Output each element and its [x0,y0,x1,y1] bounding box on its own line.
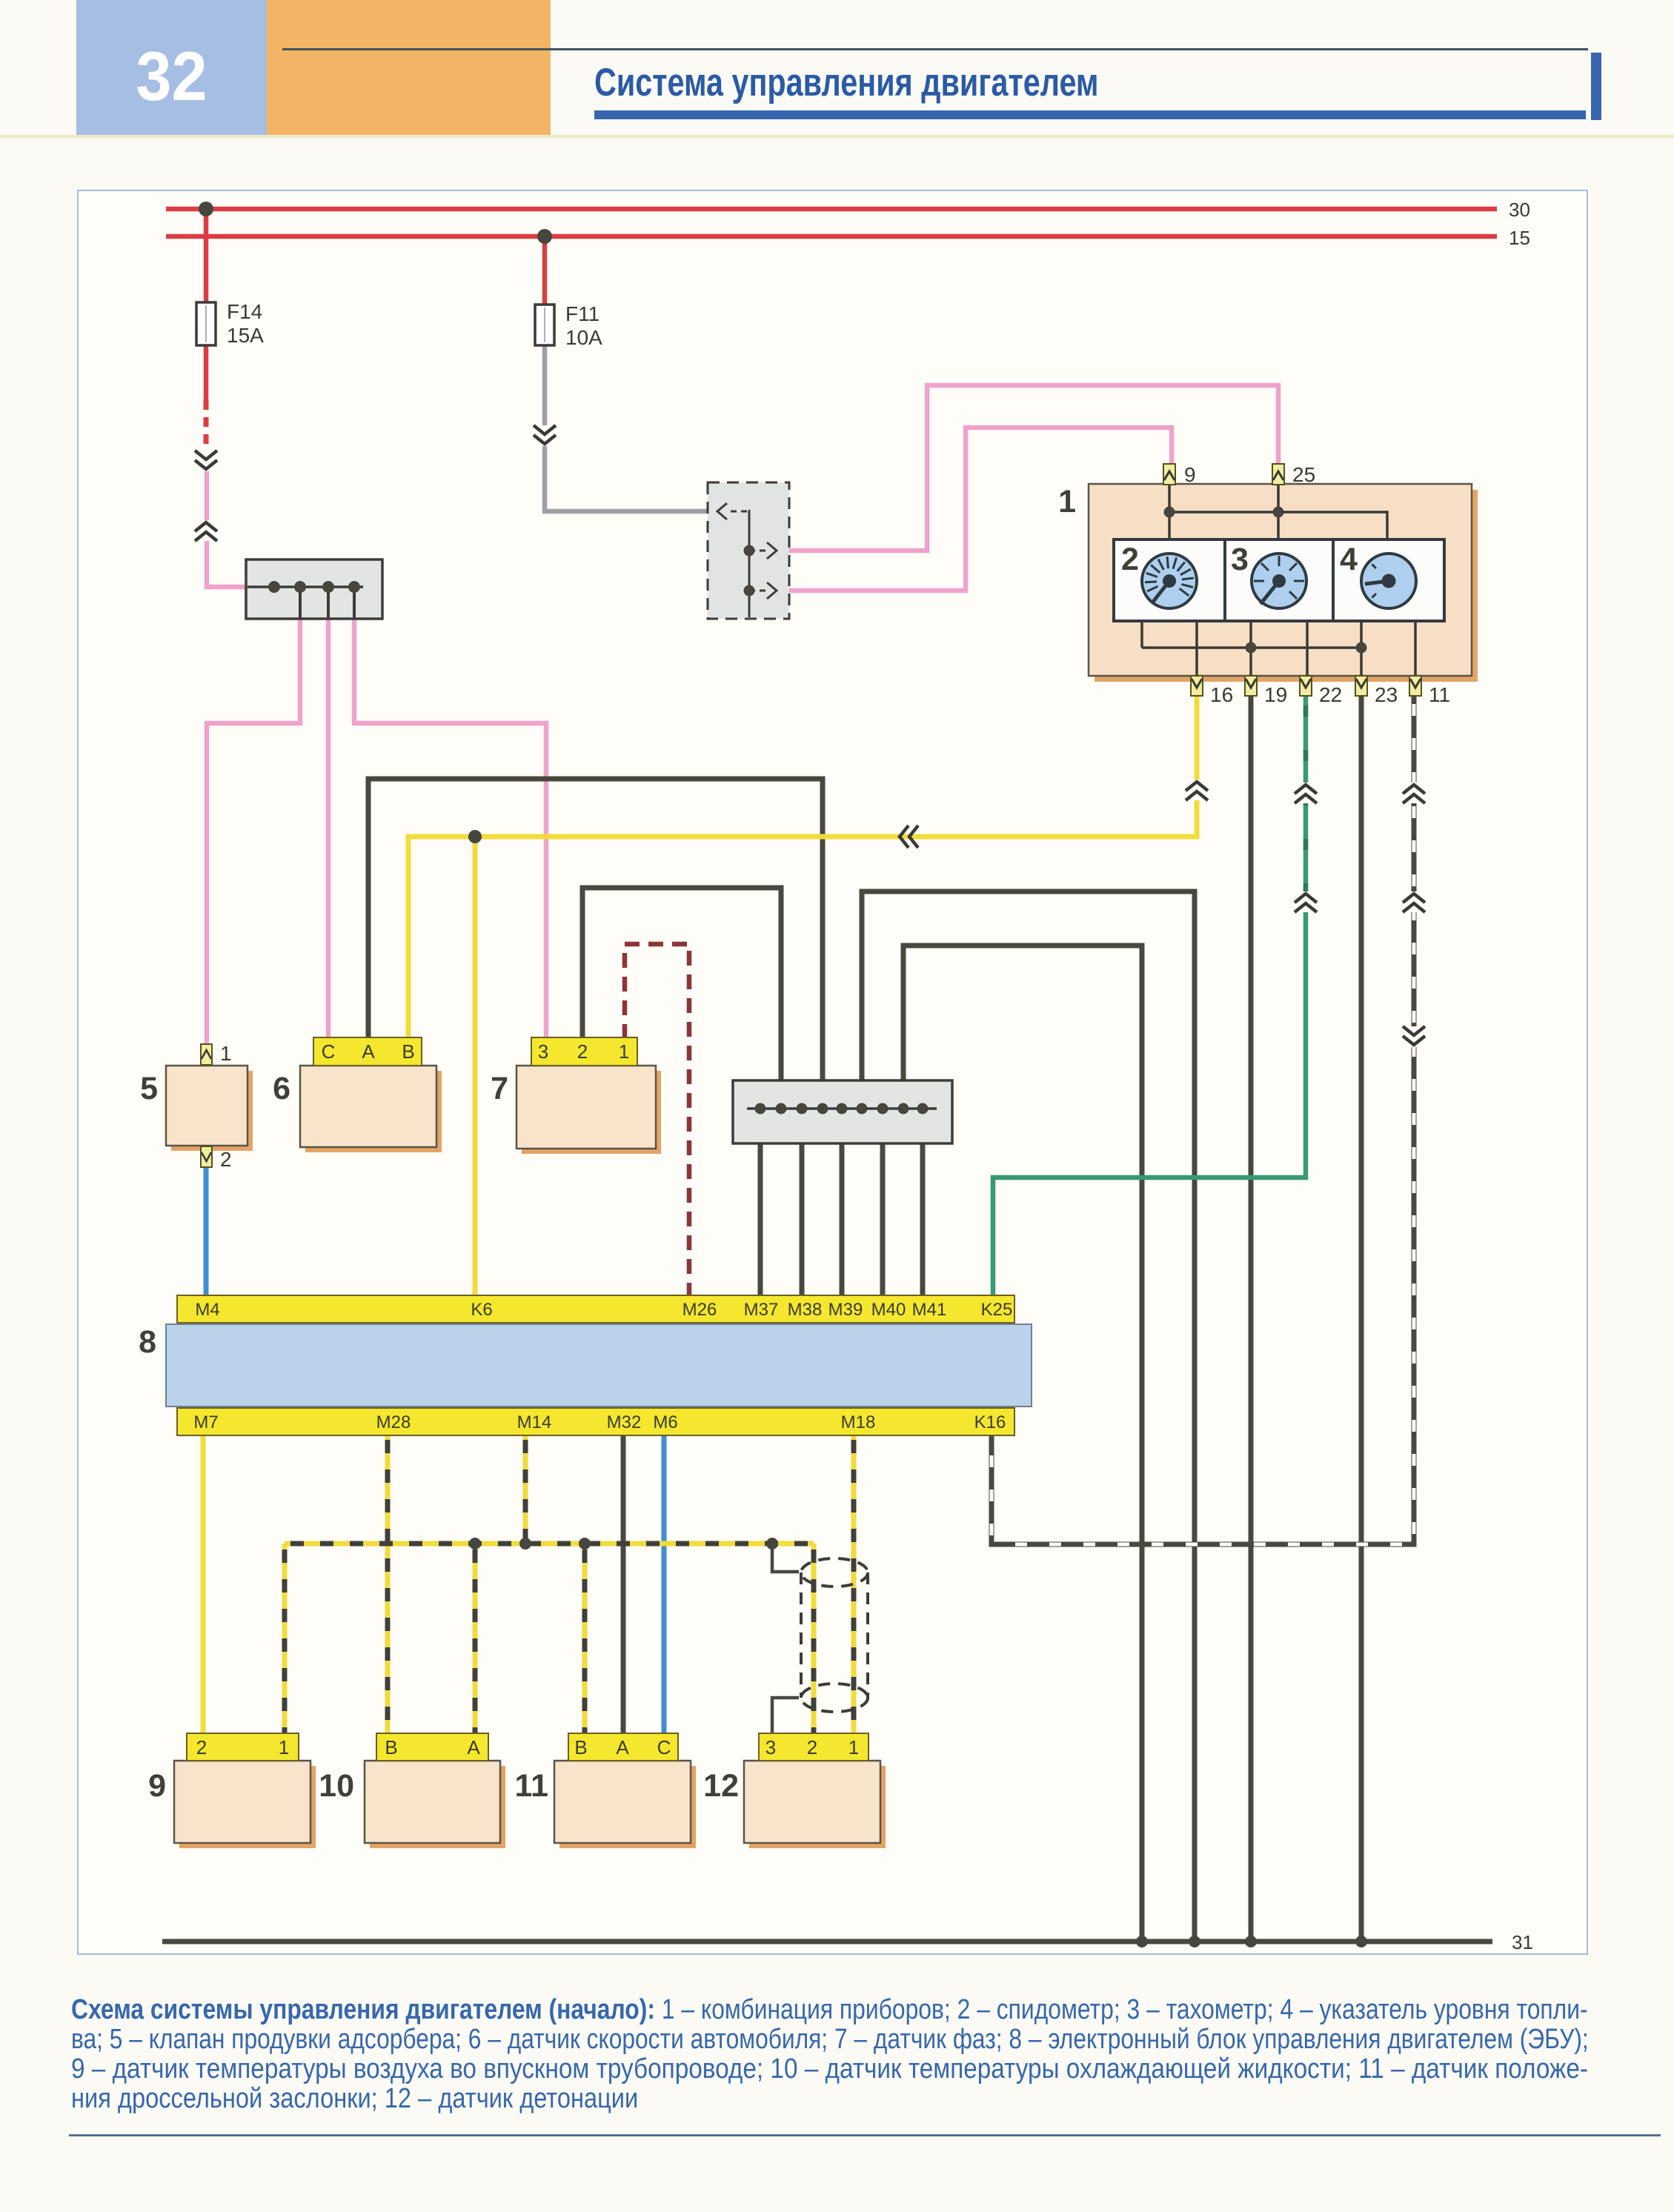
svg-text:10A: 10A [565,326,602,349]
svg-text:K6: K6 [471,1300,492,1320]
svg-text:F11: F11 [565,302,599,325]
svg-text:M7: M7 [193,1412,218,1432]
svg-text:M38: M38 [788,1300,823,1320]
svg-text:1: 1 [220,1042,232,1065]
svg-text:A: A [467,1736,480,1758]
svg-text:1: 1 [848,1736,859,1758]
svg-text:9: 9 [1184,463,1196,486]
svg-text:7: 7 [491,1071,508,1106]
svg-text:30: 30 [1509,199,1530,221]
svg-text:B: B [574,1736,587,1758]
svg-text:A: A [616,1736,629,1758]
svg-text:F14: F14 [227,300,262,323]
svg-text:2: 2 [577,1040,588,1063]
svg-text:22: 22 [1319,683,1342,706]
svg-text:1: 1 [619,1040,629,1063]
svg-text:M18: M18 [841,1412,876,1432]
svg-text:1: 1 [279,1736,289,1758]
svg-text:9: 9 [148,1768,166,1804]
svg-text:2: 2 [1121,542,1139,577]
svg-text:31: 31 [1512,1931,1533,1953]
svg-text:M6: M6 [653,1412,677,1432]
svg-text:11: 11 [1429,683,1450,706]
svg-text:K16: K16 [974,1412,1006,1432]
svg-text:M41: M41 [912,1300,947,1320]
svg-text:12: 12 [703,1768,739,1804]
svg-text:M14: M14 [517,1412,552,1432]
svg-text:M32: M32 [607,1412,642,1432]
svg-text:M39: M39 [828,1300,863,1320]
svg-text:C: C [322,1040,336,1063]
svg-text:11: 11 [515,1768,548,1804]
svg-text:M4: M4 [195,1300,219,1320]
svg-text:23: 23 [1375,683,1398,706]
svg-text:16: 16 [1210,683,1233,706]
svg-text:M28: M28 [376,1412,411,1432]
svg-text:19: 19 [1264,683,1287,706]
svg-text:3: 3 [538,1040,548,1063]
svg-text:2: 2 [196,1736,207,1758]
svg-text:15: 15 [1509,227,1530,249]
svg-text:B: B [402,1040,414,1063]
svg-text:2: 2 [220,1148,232,1171]
svg-text:3: 3 [1231,542,1249,577]
svg-text:1: 1 [1058,484,1076,519]
svg-text:K25: K25 [981,1300,1013,1320]
svg-text:5: 5 [140,1071,158,1106]
svg-text:25: 25 [1292,463,1315,486]
svg-text:3: 3 [765,1736,776,1758]
svg-text:M37: M37 [744,1300,779,1320]
svg-text:A: A [362,1040,375,1063]
svg-text:6: 6 [273,1071,290,1106]
svg-text:8: 8 [139,1324,156,1360]
svg-text:M40: M40 [871,1300,906,1320]
svg-text:2: 2 [807,1736,817,1758]
svg-text:B: B [385,1736,397,1758]
svg-text:15A: 15A [227,324,264,347]
svg-text:10: 10 [319,1768,354,1804]
svg-text:4: 4 [1340,542,1358,577]
svg-text:M26: M26 [682,1300,717,1320]
svg-text:C: C [657,1736,671,1758]
